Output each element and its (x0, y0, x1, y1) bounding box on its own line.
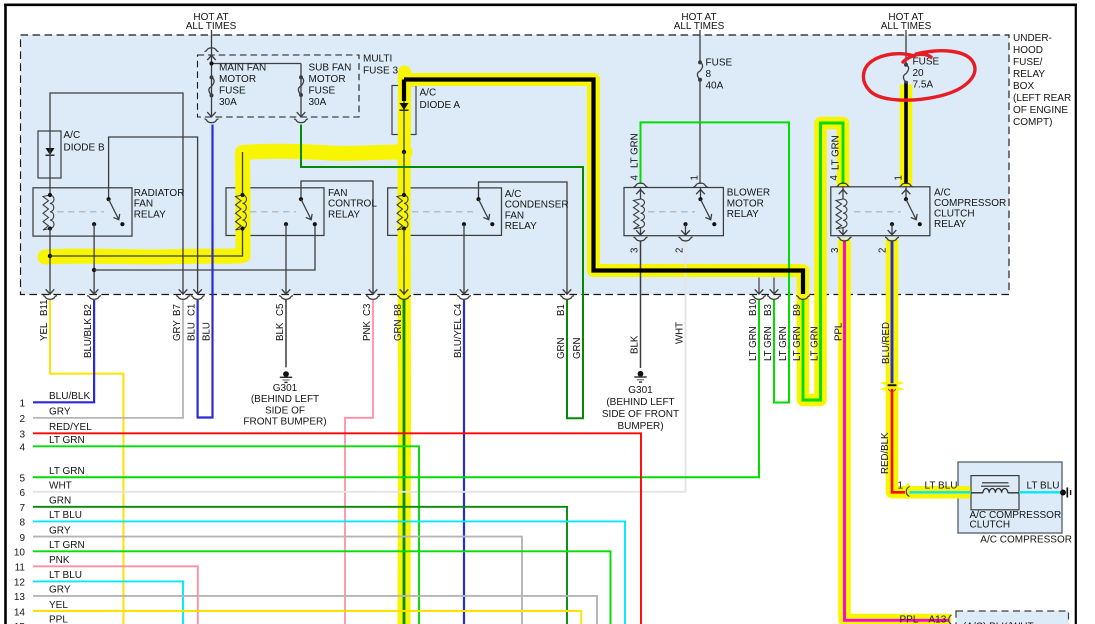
svg-text:8: 8 (706, 69, 712, 80)
highlighter trace: compressor relay pin3 PPL (845, 240, 952, 621)
coil: radiator fan relay (43, 195, 50, 230)
svg-text:COMPRESSOR: COMPRESSOR (934, 198, 1006, 209)
svg-text:GRY: GRY (49, 525, 71, 536)
wire BLK C5 (to ground) (285, 300, 287, 302)
svg-text:WHT: WHT (49, 481, 72, 492)
svg-text:7.5A: 7.5A (913, 79, 934, 90)
svg-text:PPL: PPL (49, 615, 68, 624)
wire RED/BLK to clutch connector (892, 389, 905, 493)
wire PPL compressor pin3 (thick) (845, 241, 949, 621)
highlighter trace: fan control coil branch (45, 151, 405, 257)
svg-text:LT GRN: LT GRN (49, 540, 85, 551)
svg-text:LT GRN: LT GRN (748, 326, 759, 361)
wire row 3 RED/YEL (circuit lead 3) (33, 433, 641, 624)
switch: blower motor relay (698, 197, 702, 201)
A/C diode A box (392, 86, 416, 135)
svg-text:CLUTCH: CLUTCH (970, 520, 1011, 531)
wire: thick black diode A feed (404, 80, 803, 295)
wire WHT blower pin2 to row6 (33, 241, 686, 492)
svg-text:FAN: FAN (328, 188, 347, 199)
wire: condenser coil column (403, 152, 405, 195)
wire LT GRN B10 to row5 (33, 300, 759, 477)
connector C5 (279, 296, 293, 300)
svg-text:FUSE: FUSE (309, 86, 336, 97)
connector compressor relay pin 3 (838, 237, 852, 241)
svg-text:RELAY: RELAY (134, 209, 166, 220)
connector B11 (43, 296, 57, 300)
connector blower relay pin 2 (679, 237, 693, 241)
red marker circle around fuse 20 (903, 54, 931, 62)
coil: fan control relay (236, 195, 243, 230)
svg-text:PNK: PNK (49, 555, 70, 566)
coil: condenser fan relay (397, 195, 404, 230)
switch: compressor clutch relay (904, 197, 908, 201)
connector compressor relay pin 4 (836, 183, 850, 187)
highlighter trace: diode A / condenser coil / B8 column (398, 72, 412, 624)
wire LT GRN B3 hairpin to blower pin4 (641, 122, 790, 402)
wire row 11 PNK (circuit lead 11) (33, 566, 198, 624)
svg-text:MOTOR: MOTOR (309, 74, 346, 85)
svg-text:3: 3 (830, 248, 841, 253)
svg-text:LT BLU: LT BLU (49, 570, 82, 581)
svg-text:(LEFT REAR: (LEFT REAR (1013, 93, 1071, 104)
svg-text:B8: B8 (393, 304, 404, 316)
svg-text:MULTI: MULTI (363, 54, 392, 65)
svg-text:LT GRN: LT GRN (49, 435, 85, 446)
wire: hot-at-all-times feed right (905, 30, 907, 65)
wire row 9 GRY (circuit lead 9) (33, 537, 522, 624)
exit arrow at connector B7 (179, 289, 188, 294)
svg-text:8: 8 (19, 518, 25, 529)
ground G301 (blower) (638, 371, 644, 377)
svg-text:ALL TIMES: ALL TIMES (881, 21, 932, 32)
connector: A13 (949, 615, 952, 624)
fuse: fuse 8 40A (698, 60, 702, 64)
svg-text:9: 9 (19, 533, 25, 544)
svg-text:RELAY: RELAY (1013, 69, 1045, 80)
svg-text:LT BLU: LT BLU (925, 481, 958, 492)
wire row 8 LT BLU (circuit lead 8) (33, 521, 625, 624)
svg-text:C4: C4 (453, 303, 464, 316)
compressor clutch relay internals (842, 187, 844, 199)
coil: blower motor relay (634, 199, 641, 229)
svg-text:4: 4 (829, 175, 840, 181)
dashes: compressor relay centerline (854, 211, 901, 213)
dashes: condenser relay centerline (412, 211, 473, 213)
svg-text:SIDE OF FRONT: SIDE OF FRONT (602, 409, 679, 420)
wire BLU/BLK B2 to row1 (33, 300, 94, 402)
exit arrow at connector C1 (193, 289, 202, 294)
svg-text:LT GRN: LT GRN (809, 326, 820, 361)
svg-text:RADIATOR: RADIATOR (134, 188, 185, 199)
highlighter trace: fuse 20 feed (900, 85, 913, 187)
svg-text:7: 7 (19, 503, 25, 514)
svg-text:LT GRN: LT GRN (778, 326, 789, 361)
svg-text:RELAY: RELAY (328, 209, 360, 220)
svg-text:C3: C3 (362, 304, 373, 316)
svg-text:GRN: GRN (556, 337, 567, 359)
bottom-right connector box (956, 611, 1069, 624)
svg-text:ALL TIMES: ALL TIMES (186, 21, 237, 32)
svg-text:MAIN FAN: MAIN FAN (219, 63, 266, 74)
svg-text:MOTOR: MOTOR (727, 198, 764, 209)
wire PNK C3 (345, 300, 373, 624)
splice starburst 1 (880, 376, 905, 391)
wire row 10 LT GRN (circuit lead 10) (33, 551, 611, 624)
splice starburst 2 (895, 483, 921, 500)
wire row 4 LT GRN (circuit lead 4) (33, 446, 419, 624)
connector B2 (87, 296, 101, 300)
A/C diode B box (38, 131, 61, 178)
splice bar (888, 384, 897, 386)
svg-text:3: 3 (19, 430, 25, 441)
A/C compressor box (958, 462, 1062, 533)
svg-text:1: 1 (19, 399, 25, 410)
svg-text:GRN: GRN (49, 496, 71, 507)
svg-text:1: 1 (894, 175, 905, 180)
svg-text:YEL: YEL (39, 322, 50, 341)
svg-text:A/C: A/C (64, 130, 81, 141)
svg-text:RED/BLK: RED/BLK (880, 432, 891, 474)
radiator fan relay box (33, 188, 132, 236)
diode B symbol (46, 148, 55, 155)
svg-text:MOTOR: MOTOR (219, 74, 256, 85)
svg-text:LT GRN: LT GRN (630, 133, 641, 168)
svg-text:A13: A13 (929, 614, 947, 624)
svg-text:SUB FAN: SUB FAN (309, 63, 352, 74)
wire BLU/RED compressor pin2 (thick) (891, 241, 894, 384)
dashes: fan control relay centerline (250, 211, 296, 213)
wire GRN B8 (thick, highlighted) (403, 299, 406, 624)
svg-text:A/C: A/C (420, 88, 437, 99)
svg-text:G301: G301 (273, 383, 298, 394)
svg-text:BLK: BLK (275, 322, 286, 341)
underhood fuse/relay box (21, 35, 1010, 295)
svg-text:UNDER-: UNDER- (1013, 33, 1052, 44)
svg-text:PPL: PPL (833, 322, 844, 341)
svg-text:FUSE: FUSE (706, 57, 733, 68)
switch: radiator fan relay (107, 197, 111, 201)
svg-text:CONDENSER: CONDENSER (505, 200, 569, 211)
svg-text:BLU/RED: BLU/RED (881, 322, 892, 364)
wire: fan control switch feed to C3 (301, 181, 373, 295)
svg-text:BLU/YEL: BLU/YEL (453, 318, 464, 358)
svg-text:DIODE A: DIODE A (420, 100, 461, 111)
svg-text:RED/YEL: RED/YEL (49, 422, 92, 433)
svg-text:CONTROL: CONTROL (328, 199, 377, 210)
svg-text:LT GRN: LT GRN (49, 466, 85, 477)
svg-text:B7: B7 (172, 304, 183, 316)
svg-text:G301: G301 (628, 385, 653, 396)
blower motor relay box (624, 188, 723, 236)
wire: fan control coil branch (highlighted) (50, 229, 243, 257)
exit arrow at connector C4 (460, 289, 469, 294)
svg-text:RELAY: RELAY (505, 221, 537, 232)
connector compressor relay pin 2 (885, 237, 899, 241)
svg-text:A/C: A/C (934, 187, 951, 198)
svg-text:B11: B11 (39, 299, 50, 316)
coil: compressor clutch relay (836, 199, 843, 229)
svg-text:YEL: YEL (49, 600, 68, 611)
svg-text:ALL TIMES: ALL TIMES (674, 21, 725, 32)
svg-text:4: 4 (19, 443, 25, 454)
svg-text:(BEHIND LEFT: (BEHIND LEFT (606, 397, 674, 408)
svg-text:BLOWER: BLOWER (727, 188, 770, 199)
connector blower relay pin 3 (634, 237, 648, 241)
blower relay internals (640, 188, 642, 199)
svg-text:5: 5 (19, 474, 25, 485)
svg-text:HOOD: HOOD (1013, 45, 1043, 56)
connector B9 (796, 296, 810, 300)
junction: diode A output (402, 150, 406, 154)
svg-text:C5: C5 (275, 304, 286, 316)
svg-text:40A: 40A (706, 81, 724, 92)
svg-text:10: 10 (14, 548, 26, 559)
stub: B3 (773, 278, 775, 294)
exit arrow at connector B8 (400, 289, 409, 294)
svg-text:RELAY: RELAY (727, 209, 759, 220)
multi-fuse bottom cups (205, 119, 219, 123)
svg-text:BLU/BLK: BLU/BLK (83, 318, 94, 358)
wire: condenser coil to B8 (403, 229, 405, 296)
MULTI FUSE 3 box (198, 55, 360, 117)
svg-text:20: 20 (913, 68, 925, 79)
svg-text:14: 14 (14, 607, 26, 618)
svg-text:12: 12 (14, 578, 26, 589)
svg-text:OF ENGINE: OF ENGINE (1013, 105, 1068, 116)
svg-text:30A: 30A (309, 97, 327, 108)
wire: sub fan fuse column (300, 64, 302, 118)
svg-text:30A: 30A (219, 97, 237, 108)
switch: fan control relay (299, 197, 303, 201)
wire row 13 GRY (circuit lead 13) (33, 596, 597, 624)
svg-text:FAN: FAN (134, 199, 153, 210)
svg-text:FUSE: FUSE (219, 86, 246, 97)
svg-text:2: 2 (19, 414, 25, 425)
svg-text:B9: B9 (792, 304, 803, 316)
highlighter trace: thick black feed (404, 80, 803, 271)
svg-text:GRY: GRY (172, 320, 183, 341)
connector compressor relay pin 1 (899, 183, 913, 187)
clutch coil bumps (971, 488, 1019, 492)
svg-text:GRN: GRN (393, 319, 404, 341)
svg-text:A/C COMPRESSOR: A/C COMPRESSOR (980, 535, 1072, 546)
wire: radiator switch feed to C1 (109, 137, 198, 295)
svg-text:DIODE B: DIODE B (64, 143, 105, 154)
svg-text:CLUTCH: CLUTCH (934, 209, 975, 220)
svg-text:FUSE 3: FUSE 3 (363, 66, 398, 77)
wire: branch to sub fan fuse (212, 63, 302, 65)
case ground at compressor (1060, 490, 1066, 496)
diode A symbol (403, 100, 405, 152)
a/c condenser fan relay box (388, 188, 502, 236)
wire GRY B7 to row2 (33, 300, 183, 418)
wire: main fan fuse column (211, 56, 213, 117)
svg-text:A/C: A/C (505, 189, 522, 200)
svg-text:2: 2 (878, 248, 889, 253)
svg-text:LT GRN: LT GRN (792, 326, 803, 361)
wire BLU/YEL C4 (463, 300, 465, 624)
stub: B10 (758, 278, 760, 294)
svg-text:RELAY: RELAY (934, 219, 966, 230)
page frame (4, 4, 1077, 7)
svg-text:B10: B10 (748, 298, 759, 316)
wire row 12 LT BLU (circuit lead 12) (33, 581, 183, 624)
fuse: fuse 20 7.5A (904, 63, 908, 67)
svg-text:BLU/BLK: BLU/BLK (49, 391, 90, 402)
connector B10 (752, 296, 766, 300)
connector B1 (560, 296, 574, 300)
svg-text:BLU: BLU (186, 322, 197, 341)
wire LT GRN B9 loop to compressor pin4 (thick) (803, 123, 843, 400)
A/C compressor clutch box (971, 476, 1019, 510)
connector B7 (176, 296, 190, 300)
svg-text:LT GRN: LT GRN (763, 326, 774, 361)
svg-text:GRN: GRN (572, 337, 583, 359)
svg-text:PPL: PPL (900, 614, 919, 624)
svg-text:B3: B3 (763, 304, 774, 316)
svg-text:13: 13 (14, 592, 26, 603)
connector cup top entry (205, 48, 219, 52)
connector blower relay pin 1 (694, 183, 708, 187)
svg-text:B2: B2 (83, 304, 94, 316)
svg-text:FAN: FAN (505, 210, 524, 221)
svg-text:B1: B1 (556, 304, 567, 316)
connector blower relay pin 4 (634, 183, 648, 187)
multi-fuse box entry/exit arrows (207, 55, 216, 60)
svg-text:1: 1 (690, 175, 701, 180)
wire: thick black fuse 20 to pin 1 (904, 84, 908, 185)
wire: condenser common to C4 (463, 224, 465, 295)
wire GRN B1 hairpin to sub fan fuse (301, 125, 583, 419)
svg-text:COMPT): COMPT) (1013, 117, 1052, 128)
exit arrow at connector B1 (563, 289, 572, 294)
wire YEL B11 (50, 300, 124, 624)
dashes: radiator relay centerline (57, 211, 104, 213)
svg-text:GRY: GRY (49, 407, 71, 418)
svg-text:C1: C1 (186, 304, 197, 316)
switch: condenser fan relay (476, 197, 480, 201)
svg-text:LT GRN: LT GRN (831, 135, 842, 170)
wire row 7 GRN (circuit lead 7) (33, 507, 567, 624)
highlighter trace: pin2 blu/red + red/blk + lt blu (892, 240, 971, 493)
clutch coil core bars (982, 482, 1009, 484)
highlighter trace: B9 lt grn loop to compressor relay (803, 123, 843, 400)
svg-text:LT BLU: LT BLU (49, 510, 82, 521)
svg-text:PNK: PNK (362, 321, 373, 341)
wire: fan control common to C5 (285, 224, 287, 295)
svg-text:FUSE/: FUSE/ (1013, 57, 1043, 68)
wire: radiator common to B2 (93, 224, 95, 295)
wire row 14 YEL (circuit lead 14) (33, 611, 581, 624)
wire: fuse 8 to blower relay pin 1 (699, 80, 701, 184)
svg-text:FRONT BUMPER): FRONT BUMPER) (243, 417, 326, 428)
connector B8 (397, 296, 411, 300)
svg-text:BLK: BLK (629, 335, 640, 354)
svg-text:SIDE OF: SIDE OF (265, 405, 305, 416)
wire: hot-at-all-times feed middle (699, 30, 701, 62)
connector C3 (366, 296, 380, 300)
wire: hot-at-all-times feed left (211, 30, 213, 56)
svg-text:BLU: BLU (201, 322, 212, 341)
svg-text:LT BLU: LT BLU (1027, 481, 1060, 492)
connector C4 (457, 296, 471, 300)
exit arrow at connector B11 (46, 289, 55, 294)
svg-text:4: 4 (630, 175, 641, 181)
svg-text:WHT: WHT (674, 322, 685, 344)
svg-text:2: 2 (675, 248, 686, 253)
wire LT BLU clutch to case ground (1019, 491, 1060, 493)
svg-text:11: 11 (15, 563, 26, 574)
svg-text:BOX: BOX (1013, 81, 1034, 92)
wire: diode B to coil (49, 155, 51, 195)
svg-text:6: 6 (19, 488, 25, 499)
svg-text:GRY: GRY (49, 585, 71, 596)
wire: blower pin3 blk to ground (640, 241, 642, 369)
fuse: sub fan motor fuse 30A (299, 75, 303, 79)
svg-text:3: 3 (630, 248, 641, 253)
exit arrow at connector C3 (369, 289, 378, 294)
svg-text:(BEHIND LEFT: (BEHIND LEFT (251, 394, 319, 405)
wire: radiator relay coil top run to B7 (50, 93, 183, 295)
wire LT BLU clutch feed (910, 491, 972, 493)
svg-text:1: 1 (897, 481, 903, 492)
connector B3 (767, 296, 781, 300)
wire: B2 column to fan control switch output (94, 224, 315, 270)
wire: radiator coil to B11 (49, 229, 51, 296)
svg-text:BUMPER): BUMPER) (617, 421, 663, 432)
a/c compressor clutch relay box (831, 187, 930, 236)
connector: clutch pin 1 (906, 487, 909, 497)
ground G301 (fan control C5) (285, 301, 287, 367)
exit arrow at connector C5 (282, 289, 291, 294)
connector C1 (191, 296, 205, 300)
fuse: main fan motor fuse 30A (210, 75, 214, 79)
wire BLU C1 hairpin to main fan fuse (198, 125, 213, 418)
fan control relay box (226, 188, 324, 236)
svg-text:FUSE: FUSE (913, 57, 940, 68)
dashes: blower relay centerline (648, 211, 695, 213)
wire: condenser switch feed to B1 (479, 182, 568, 295)
exit arrow at connector B2 (90, 289, 99, 294)
